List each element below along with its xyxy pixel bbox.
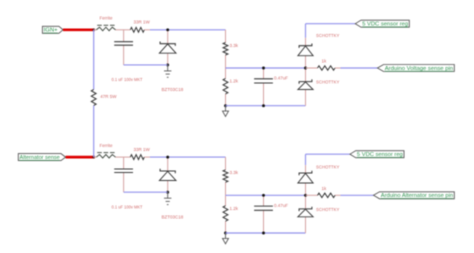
svg-text:Arduino Alternator sense pin: Arduino Alternator sense pin <box>381 193 453 199</box>
wire 5VDC vertical (top) <box>305 24 307 38</box>
wire 5VDC horizontal (bottom) <box>306 153 351 155</box>
junction divider bottom (bottom) <box>224 232 227 235</box>
capacitor 0.47uF leads (bottom) <box>263 195 265 206</box>
svg-text:SCHOTTKY: SCHOTTKY <box>316 80 340 85</box>
svg-text:0.1 uF 100v MKT: 0.1 uF 100v MKT <box>112 204 143 209</box>
svg-text:33R 1W: 33R 1W <box>134 20 151 25</box>
schottky diode upper leads (bottom) <box>305 165 307 173</box>
svg-text:1.2k: 1.2k <box>230 206 239 211</box>
resistor 1.2k leads (top) <box>225 68 227 78</box>
svg-text:SCHOTTKY: SCHOTTKY <box>316 165 340 170</box>
resistor 3.3k leads (bottom) <box>225 157 227 170</box>
capacitor 0.1uF (top) <box>114 41 133 43</box>
resistor 1.2k (top) <box>223 78 228 94</box>
svg-text:5 VDC sensor reg: 5 VDC sensor reg <box>362 22 408 28</box>
schottky diode lower leads (top) <box>305 68 307 82</box>
resistor 1k (top) <box>318 66 336 70</box>
wire 5VDC horizontal (top) <box>306 23 356 25</box>
junction cap 0.47uF bottom (bottom) <box>262 232 265 235</box>
wire 5VDC vertical (bottom) <box>305 154 307 165</box>
svg-text:33R 1W: 33R 1W <box>134 147 151 152</box>
junction divider bottom (top) <box>224 104 227 107</box>
junction zener bottom (top) <box>166 63 169 66</box>
thick feed wire from Alternator sense <box>66 156 94 159</box>
resistor 33R 1W (top) <box>130 27 144 32</box>
svg-text:0.47uF: 0.47uF <box>274 76 288 81</box>
wire bottom rail (bottom) <box>226 232 306 234</box>
capacitor 0.1uF (bottom) <box>114 168 133 170</box>
svg-text:0.47uF: 0.47uF <box>274 203 288 208</box>
svg-text:47R 5W: 47R 5W <box>100 94 117 99</box>
wire bottom rail (top) <box>226 105 306 107</box>
junction zener top (top) <box>166 28 169 31</box>
wire cap bottom to zener bottom (top) <box>124 64 168 66</box>
resistor 33R 1W (bottom) <box>130 155 144 160</box>
schottky diode lower (top) <box>299 79 312 83</box>
junction schottky mid (bottom) <box>304 194 307 197</box>
schottky diode lower (bottom) <box>299 207 312 211</box>
svg-text:Alternator sense: Alternator sense <box>20 155 60 161</box>
ground (triangle) under divider (top) <box>225 106 227 111</box>
svg-text:BZT03C18: BZT03C18 <box>162 215 184 220</box>
svg-text:1k: 1k <box>322 186 328 191</box>
wire IGN+ node to 47R <box>93 30 95 90</box>
net label IGN+ (input flag) <box>42 26 63 33</box>
svg-text:Ferrite: Ferrite <box>100 143 113 148</box>
svg-text:1k: 1k <box>322 59 328 64</box>
zener diode BZT03C18 (bottom) <box>160 169 175 173</box>
ferrite bead FB (top) leads <box>94 29 97 31</box>
resistor 1.2k (bottom) <box>223 206 228 222</box>
schottky diode upper leads (top) <box>305 38 307 46</box>
resistor 3.3k leads (top) <box>225 30 227 43</box>
svg-text:Arduino Voltage sense pin: Arduino Voltage sense pin <box>385 66 453 72</box>
net label Alternator sense (input flag) <box>18 154 65 161</box>
wire 1k to output flag (bottom) <box>341 194 374 196</box>
ferrite bead FB (bottom) <box>96 155 115 159</box>
junction zener bottom (bottom) <box>166 191 169 194</box>
junction at feed node bottom <box>92 156 95 159</box>
net label 5 VDC sensor reg (top) <box>355 20 409 27</box>
schottky diode upper (bottom) <box>299 171 312 175</box>
junction schottky mid (top) <box>304 67 307 70</box>
resistor 1k leads (top) <box>306 67 318 69</box>
junction at feed node top <box>92 28 95 31</box>
zener diode BZT03C18 (top) <box>160 42 175 46</box>
wire 1k to output flag (top) <box>341 67 378 69</box>
svg-text:SCHOTTKY: SCHOTTKY <box>316 33 340 38</box>
capacitor 0.1uF leads (bottom) <box>123 157 125 169</box>
wire cap bottom to zener bottom (bottom) <box>124 191 168 193</box>
capacitor 0.1uF leads (top) <box>123 30 125 42</box>
wire mid rail (bottom) <box>226 194 306 196</box>
svg-text:BZT03C18: BZT03C18 <box>162 87 184 92</box>
capacitor 0.47uF leads (top) <box>263 68 265 79</box>
resistor 3.3k (top) <box>223 43 228 56</box>
wire 33R to divider (bottom) <box>144 156 150 158</box>
svg-text:IGN+: IGN+ <box>44 28 58 34</box>
thick feed wire from IGN+ <box>63 28 94 31</box>
ferrite bead FB (bottom) leads <box>94 156 97 158</box>
junction cap 0.47uF bottom (top) <box>262 104 265 107</box>
junction cap 0.47uF top (top) <box>262 67 265 70</box>
resistor 1k leads (bottom) <box>306 194 318 196</box>
ground (triangle) under divider (bottom) <box>225 233 227 238</box>
ferrite bead FB (top) <box>96 27 115 31</box>
wire 47R to Alternator sense node <box>93 106 95 158</box>
ground (earth) under zener (top) <box>167 65 169 71</box>
junction cap 0.47uF top (bottom) <box>262 194 265 197</box>
net label Arduino Alternator sense pin <box>374 192 455 199</box>
wire 33R to divider (top) <box>144 29 150 31</box>
schottky diode lower leads (bottom) <box>305 195 307 209</box>
junction zener top (bottom) <box>166 156 169 159</box>
resistor 3.3k (bottom) <box>223 170 228 183</box>
resistor 1k (bottom) <box>318 193 336 197</box>
svg-text:3.3k: 3.3k <box>230 170 239 175</box>
zener diode BZT03C18 leads (top) <box>167 30 169 44</box>
ground (earth) under zener (bottom) <box>167 192 169 198</box>
svg-text:0.1 uF 100v MKT: 0.1 uF 100v MKT <box>112 77 143 82</box>
wire mid rail (top) <box>226 67 306 69</box>
svg-text:3.3k: 3.3k <box>230 43 239 48</box>
capacitor 0.47uF (bottom) <box>254 205 273 207</box>
svg-text:SCHOTTKY: SCHOTTKY <box>316 207 340 212</box>
svg-text:Ferrite: Ferrite <box>100 16 113 21</box>
schottky diode upper (top) <box>299 44 312 48</box>
svg-text:5 VDC sensor reg: 5 VDC sensor reg <box>357 152 403 158</box>
resistor 47R 5W <box>91 90 96 106</box>
net label Arduino Voltage sense pin <box>378 65 455 72</box>
resistor 1.2k leads (bottom) <box>225 195 227 205</box>
capacitor 0.47uF (top) <box>254 78 273 80</box>
svg-text:1.2k: 1.2k <box>230 79 239 84</box>
net label 5 VDC sensor reg (bottom) <box>350 151 404 158</box>
zener diode BZT03C18 leads (bottom) <box>167 157 169 171</box>
